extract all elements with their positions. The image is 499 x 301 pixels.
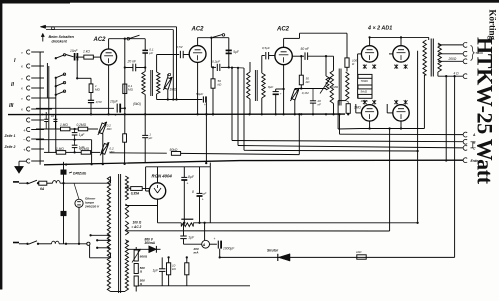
svg-text:mA: mA [194,251,200,255]
RGN box top wire [146,166,211,168]
wire plate down to resistor 100Ohm [346,33,348,58]
wire v x240.5 (third descender) [243,68,245,150]
wire v x389.6 down [389,129,391,232]
svg-text:0,2MΩ: 0,2MΩ [80,147,90,151]
resistor 10kOhm b [186,257,188,262]
svg-text:MΩ: MΩ [95,88,100,92]
IF transformer T1 primary [142,72,145,95]
svg-text:+: + [204,103,206,107]
svg-text:20 nF: 20 nF [127,60,137,64]
tube V7 AD1 [393,105,409,121]
wire v x234.5 (C line descender) [237,68,239,146]
wire v double down x173.3 [172,30,174,100]
resistor 50kOhm [171,152,180,156]
svg-text:Erde: Erde [471,159,479,163]
lower plate bus y128.3 [338,128,361,131]
glow lamp to lower mains [78,207,80,243]
capacitor 50nF coupling [292,55,304,57]
filter cap black upper [61,170,67,175]
svg-text:MΩ: MΩ [128,88,134,92]
sirutor line left junction [219,256,221,258]
wire v x145.2 + cap 0.1uF [144,39,146,51]
svg-text:50kΩ: 50kΩ [170,148,178,152]
junction wire y88.5 [295,88,326,90]
svg-text:100 Ω: 100 Ω [133,221,142,225]
voltage selector wiper circle [87,242,90,245]
switch S1a [56,55,65,58]
IF transformer T1 secondary [157,72,160,94]
capacitor 10uF electrolytic [116,104,118,113]
border left bar [0,0,2,290]
svg-text:0,5µF: 0,5µF [262,46,270,50]
potentiometer P4 0.1MOhm [291,89,298,100]
diode Sirutor [277,254,279,261]
arrowhead top line [40,25,45,28]
output transformer T4 core [430,39,432,77]
potentiometer P3 0.2MOhm [101,144,108,155]
wire v x210.3 extension to rail [209,167,211,223]
tube V3 AC2 [275,47,292,64]
wire secondary top to grid V2 [156,55,158,73]
wire pot P1 top [167,74,169,77]
capacitor 1000uF [217,241,219,249]
resistor vertical x124.5 [124,114,126,134]
wire plate V3 up + across [283,38,285,47]
junction dot x206.4 bus [205,113,207,115]
wire v x124.8 [124,39,126,115]
potentiometer P1 1MOhm [164,78,171,90]
main bus line y114.3 (bold) [8,113,345,116]
speaker tap wire 1 [438,44,464,46]
svg-text:0,2MΩ: 0,2MΩ [77,123,87,127]
selector common down [89,245,91,257]
grid leak branch x77.2 [76,56,78,58]
meter A [202,240,210,248]
tube V8 RGN4004 [149,183,165,199]
wire top double line lower [46,29,173,31]
capacitor 8uF no2 [199,167,201,194]
output transformer T4 primary [428,37,430,40]
speaker tap wire 4 (4 Ohm) [437,72,439,76]
svg-text:4 Ω: 4 Ω [454,71,460,75]
cathode V1 down [108,65,110,115]
selector contact y235.3 [89,234,91,236]
driver transformer T2 primary [249,62,251,72]
H13 line y230.8 [129,230,390,232]
input jack terminal row 6 [26,107,29,111]
tube V2 AC2 [189,46,206,63]
resistor trio rect1 [358,74,372,78]
wire v x357.6 [357,54,359,99]
line A [339,114,341,134]
svg-text:Beim Schalten: Beim Schalten [49,35,75,39]
svg-text:800Ω: 800Ω [140,255,148,259]
input jack terminal row 11 [26,159,29,163]
wire v double down x176.5 [176,27,178,100]
selector contact y240.3 [96,239,98,241]
svg-text:µF: µF [149,136,153,140]
jack Erde [463,158,467,163]
cathode V2 down [197,62,199,114]
wire plate row y38.7 [109,38,146,40]
resistor 500 Ohm b [134,276,138,286]
svg-text:1 kΩ: 1 kΩ [83,50,90,54]
selector bottom wire [90,257,111,259]
capacitor 1uF bottom [161,257,163,268]
svg-text:Sirutor: Sirutor [267,249,279,253]
svg-text:5τkΩ: 5τkΩ [361,90,368,94]
switch on plate row2 [210,37,212,39]
RC row1 wire y129 [36,128,61,130]
capacitor 1uF below rail [183,223,185,236]
switch mains upper [26,182,28,184]
filter coil upper [53,181,61,184]
wire v x228.8 (B line descender) [228,38,230,68]
wire v x424.4 up to transformer [423,75,425,129]
resistor 50kOhm stage2 [211,79,215,88]
switch mains lower [26,243,28,245]
resistor on sirutor line [357,255,366,259]
svg-text:1µF: 1µF [188,236,195,240]
wire y99.5 tie line [157,99,203,101]
capacitor 20nF [132,64,134,72]
capacitor 8uF no1 [183,167,185,178]
interstage transformer T3 secondary [346,72,349,100]
jack B [463,139,467,144]
input jack terminal row 4 [26,86,29,90]
resistor 0.2MOhm row3 [81,151,90,155]
capacitor 20nF stage3 [312,89,314,101]
svg-text:Zeile 2: Zeile 2 [4,145,16,149]
wire v x454.6 [453,75,455,77]
jack C [463,146,467,151]
fuse 6A [39,181,47,185]
resistor 1MOhm output grid [346,104,350,114]
wire stub t5 [44,97,56,99]
wire sw1 to cap [66,55,74,57]
svg-text:AC2: AC2 [93,37,107,43]
input jack terminal row 2 [26,64,29,68]
wire v x211.4 [210,38,212,68]
wire heater c [125,230,128,232]
wire v x206.4 down to ground line [205,103,207,163]
input jack terminal row 9 [26,137,29,141]
capacitor grid V2 [179,51,181,58]
svg-text:200Ω: 200Ω [448,57,457,61]
power transformer T5 secondary d [125,240,128,291]
HT diode [129,248,149,250]
cathode stars V5 [394,65,398,69]
svg-text:DRfZstb: DRfZstb [73,172,86,176]
svg-text:(5kΩ): (5kΩ) [133,102,141,106]
svg-text:0,35A: 0,35A [131,192,140,196]
capacitor 1uF row2-3 [74,140,76,146]
label DRfZstb [69,172,72,173]
tube V6 AD1 [361,105,377,121]
meter line y244.2 [184,243,202,245]
svg-text:III: III [9,103,14,109]
power transformer T5 secondary a [125,176,128,200]
wire T3 sec bottom to lower plate bus [345,99,347,102]
resistor 50kOhm stage3 [300,56,302,75]
switch S1b [56,74,65,78]
resistor 1MOhm row3 [56,151,65,155]
input jack terminal row 10 [26,147,29,151]
switch S1d [56,91,65,95]
driver transformer T2 core [254,70,256,101]
grid stubs lower tubes [356,112,362,114]
wire RGN anode [157,167,159,183]
mains wire lower y243.8 [19,243,27,245]
input jack terminal row 5 [26,96,29,100]
svg-text:0,5V: 0,5V [96,100,103,104]
plate bus top y37.4 [370,36,429,38]
brace 500 Ohm [471,46,475,61]
svg-text:nF: nF [318,102,322,106]
wire bus v x48.8 [48,66,50,153]
svg-text:8: 8 [192,190,194,194]
svg-text:1MΩ: 1MΩ [354,106,361,110]
svg-text:300mA: 300mA [145,241,156,245]
output transformer T4 secondary [438,43,442,72]
resistor 0.2MOhm row1 [78,127,87,131]
svg-text:AC2: AC2 [191,27,205,33]
heater wire y205.5 [125,205,157,207]
capacitor 8uF stage3 branch [282,88,284,90]
power transformer T5 secondary b [125,204,128,219]
fuse 0.35A [125,187,130,189]
svg-text:10µF: 10µF [110,99,119,103]
wire grid V1 [77,56,83,58]
wire v x91.6 [91,140,93,164]
speaker jacks [463,43,467,48]
svg-text:10nF: 10nF [70,49,79,53]
contact circle top line [52,27,55,30]
wire RGN cathode down [157,199,159,223]
svg-text:8µF: 8µF [188,175,195,179]
resistor 0.1MOhm vertical [123,84,127,94]
resistor 100Ohm [345,58,349,67]
ground symbol [19,160,27,162]
input jack terminal row 7 [26,118,29,122]
glow lamp branch [74,183,79,199]
wire v x446.2 [445,75,447,77]
IF transformer T1 core [150,70,152,96]
filter cap black lower [61,211,67,216]
svg-text:1 MΩ: 1 MΩ [60,123,68,127]
wire v x213 to resistor [212,66,214,68]
sirutor line y257.4 [220,256,455,258]
svg-text:A: A [202,243,206,247]
line B [232,141,463,142]
tube V5 AD1 [400,37,402,45]
capacitor 0.5V bias [88,99,94,101]
wire v x145.6 [145,167,147,191]
wire stub t6 [44,108,52,110]
bias pot 800 Ohm [135,247,137,250]
wire v x417.6 [417,51,419,222]
input jack terminal row 3 [26,76,29,80]
wire plate V1 up [108,39,110,50]
svg-text:+: + [202,198,204,202]
interstage transformer T3 core [338,69,340,106]
power transformer T5 secondary c [125,221,128,235]
caps at top of RC rows [44,118,48,120]
wire pot P1 bottom [167,90,169,100]
input jack terminal row 8 [26,127,29,131]
svg-text:drücken!: drücken! [52,39,68,43]
capacitor C1 10nF [74,53,76,61]
wire v x372 trio right [371,76,373,96]
svg-text:−: − [23,138,26,143]
speaker tap wire 2 [438,53,464,55]
resistor 500 Ohm a [134,264,138,274]
grid wires output top [358,53,362,55]
svg-text:1kΩ: 1kΩ [356,250,362,254]
svg-text:1000µF: 1000µF [223,247,235,251]
wire bus v x40 [39,52,41,165]
switch on plate row [127,37,130,40]
selector contact y247.8 [96,247,98,249]
wire secondary bottom [156,94,158,100]
wire to transformer primary top [110,177,112,184]
line C [238,146,463,148]
resistor R1 14kOhm [84,55,94,59]
wire bus v x55.8 [55,78,57,153]
svg-text:700Ω: 700Ω [361,79,369,83]
wire y67.4 RC loop [211,66,216,68]
svg-text:A: A [472,133,476,137]
svg-text:4 × 2 AD1: 4 × 2 AD1 [367,26,392,32]
filter coil lower [52,241,60,244]
svg-text:Zeile 1: Zeile 1 [4,134,16,138]
svg-text:+: + [23,128,26,133]
svg-text:0,2µF: 0,2µF [212,59,221,63]
choke L1 (iron core W) [181,218,193,220]
input jack terminal row 1 [26,50,29,54]
wire H3 y108 [36,107,114,109]
transformer bottom wire [111,291,126,293]
wire pots to ground bus [102,134,104,165]
cathode V3 down to bus [283,65,285,115]
svg-text:1MΩ: 1MΩ [170,88,177,92]
line third y150-151 [244,149,418,152]
svg-text:µF: µF [203,192,207,196]
svg-text:0,5V: 0,5V [177,45,184,49]
capacitor 1uF on x145.2 [142,134,148,136]
B+ rail y222.8 [158,222,182,224]
svg-text:+: + [214,237,216,241]
speaker tap wire 3 (200 Ohm) [438,60,464,62]
jack A [463,132,467,137]
svg-text:kΩ: kΩ [218,83,223,87]
glow lamp [75,199,83,207]
border top bar [0,0,499,3]
svg-text:MΩ: MΩ [109,150,115,154]
resistor 1MOhm grid leak [89,84,93,93]
capacitor 1uF row1-2 [74,129,76,133]
svg-text:500Ω: 500Ω [476,51,484,55]
svg-text:50 nF: 50 nF [301,47,310,51]
resistor trio rect2 [358,85,372,89]
capacitor grid V3 [265,52,267,59]
svg-text:+: + [280,92,282,96]
wire cap1000 to sirutor line [219,249,221,258]
svg-text:1 MΩ: 1 MΩ [56,147,64,151]
capacitor 50uF on tie line [202,96,204,102]
wire v x299.3 bus to line4 [298,114,300,154]
svg-text:RGN 4004: RGN 4004 [152,174,173,179]
switch S1c [56,83,65,87]
svg-text:MΩ: MΩ [107,127,113,131]
wire row3 to 50k [110,152,167,154]
wire v x63.5 with filter caps [63,162,65,244]
interstage transformer T3 primary [333,56,335,70]
potentiometer P2 0.2MOhm [99,123,106,134]
svg-text:≈ AC 2: ≈ AC 2 [132,225,142,229]
svg-text:6A: 6A [40,187,45,191]
RC row3 wire y152.4 [44,151,56,153]
power transformer T5 core [118,174,120,293]
svg-text:240/220 V: 240/220 V [84,204,100,208]
cathode stars V4 [363,65,367,69]
power transformer T5 primary winding [107,177,110,292]
svg-text:Körting: Körting [488,10,498,41]
wire v x204.6 rail to meter [204,223,206,241]
mains wire upper y183.2 [19,182,27,184]
tube V4 AD1 [369,37,371,45]
resistor trio rect3 [358,94,372,98]
mains plug upper [13,181,19,183]
resistor 1MOhm row1 [61,127,70,131]
resistor 10kOhm a [168,257,170,262]
potentiometer P5 zigzag 1MOhm [326,76,329,90]
mains plug lower [13,242,19,244]
svg-text:AC2: AC2 [276,27,290,33]
wire top double line upper [41,26,177,28]
tube V1 AC2 [101,49,117,65]
capacitor 5uF dark [226,49,232,51]
wire row2 y139.7 [36,139,92,141]
bracket B-C [471,142,473,148]
wire T2 sec bottom [261,98,263,114]
wire plate row2 y37.7 [198,37,229,39]
svg-text:8µF: 8µF [268,85,273,89]
cathode stars V6 V7 [363,100,367,104]
svg-text:+: + [187,182,189,186]
wire T2 sec top to cap [261,56,263,74]
driver transformer T2 secondary [262,73,265,98]
svg-text:0,1M: 0,1M [302,91,309,95]
ground bus bold line [44,160,463,165]
bottom wire H17 y285.8 [139,285,251,287]
svg-text:+: + [23,148,26,153]
arrow up Beim Schalten [42,35,44,42]
wire v x47.4 aux [46,63,48,98]
capacitor 0.2uF [216,64,218,71]
wire plate V2 up [197,38,199,46]
